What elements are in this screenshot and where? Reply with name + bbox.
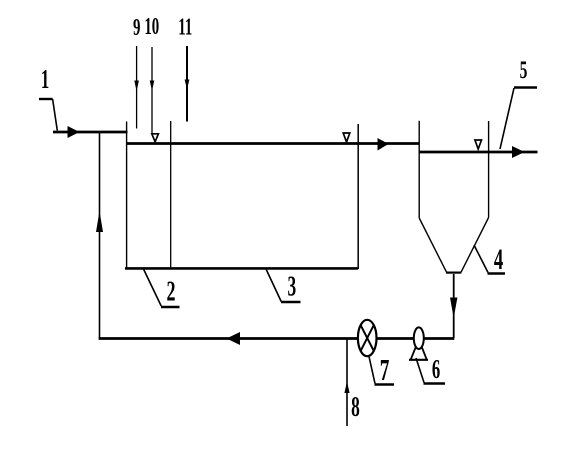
arrow: return flow left xyxy=(227,332,241,345)
svg-text:8: 8 xyxy=(351,392,360,423)
svg-text:11: 11 xyxy=(178,14,192,40)
water-level symbol on line 10 xyxy=(152,134,159,142)
wire: water line tank xyxy=(127,142,419,145)
clarifier cone right xyxy=(461,218,489,273)
tank right wall xyxy=(357,124,359,269)
arrow: underflow down xyxy=(450,298,457,319)
wire: feed 10 xyxy=(150,47,155,134)
label 4 xyxy=(474,244,505,276)
wire: feed 11 xyxy=(185,46,190,122)
arrow: inlet flow xyxy=(68,126,80,138)
arrow: tank to clarifier xyxy=(378,138,389,151)
svg-text:6: 6 xyxy=(432,354,440,384)
pump P (item 6) xyxy=(409,327,428,359)
wire: recycle riser xyxy=(99,132,101,340)
clarifier cone left xyxy=(419,218,446,272)
arrow: outlet flow xyxy=(512,146,525,158)
svg-text:3: 3 xyxy=(287,271,296,302)
svg-text:2: 2 xyxy=(167,276,176,307)
label 6 xyxy=(416,354,445,384)
svg-text:5: 5 xyxy=(520,56,528,84)
wire: feed 9 xyxy=(134,46,139,129)
clarifier cone bottom xyxy=(446,272,461,274)
wire: clarifier water line / outlet xyxy=(419,151,537,154)
mixer/valve M (item 7) xyxy=(358,320,377,356)
wire: chemical feed 8 xyxy=(344,339,349,426)
label 7 xyxy=(369,352,394,387)
label 5 xyxy=(500,56,537,149)
wire: return line xyxy=(99,337,455,340)
tank partition xyxy=(170,121,172,269)
label 1 xyxy=(39,64,57,131)
clarifier left wall xyxy=(418,121,420,218)
clarifier right wall xyxy=(488,121,490,218)
svg-text:7: 7 xyxy=(380,352,390,387)
label 3 xyxy=(266,269,301,303)
arrow: riser up xyxy=(96,211,103,232)
wire: inlet line xyxy=(53,131,128,134)
wire: clarifier underflow xyxy=(453,274,455,338)
svg-text:1: 1 xyxy=(41,64,49,94)
svg-text:10: 10 xyxy=(144,14,159,40)
svg-text:4: 4 xyxy=(494,244,503,276)
water-level symbol tank right xyxy=(343,133,350,142)
water-level symbol clarifier xyxy=(475,140,482,149)
tank bottom xyxy=(125,267,358,270)
svg-text:9: 9 xyxy=(133,15,140,41)
tank left wall xyxy=(126,122,128,270)
label 2 xyxy=(144,269,180,308)
